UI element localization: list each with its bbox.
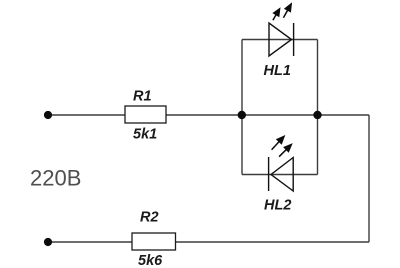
svg-text:R1: R1: [133, 89, 152, 105]
svg-text:R2: R2: [140, 210, 159, 226]
svg-text:5k1: 5k1: [133, 127, 157, 143]
svg-text:HL2: HL2: [264, 198, 291, 214]
svg-text:220В: 220В: [30, 166, 81, 191]
svg-text:HL1: HL1: [264, 63, 291, 79]
svg-text:5k6: 5k6: [138, 253, 163, 268]
